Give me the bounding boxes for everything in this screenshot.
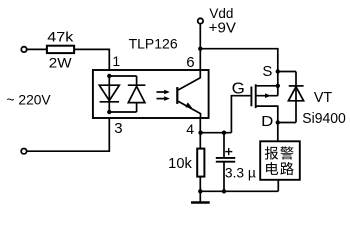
svg-text:G: G xyxy=(232,80,245,97)
wire internal right vertical bottom xyxy=(136,103,138,112)
diode VD triangle xyxy=(288,87,303,101)
node rail-resistor junction xyxy=(198,189,202,193)
wire pin6 above box xyxy=(199,49,201,70)
resistor R2 10k xyxy=(197,149,204,177)
wire internal right vertical top xyxy=(136,76,138,85)
svg-text:Si9400: Si9400 xyxy=(302,111,346,127)
svg-text:6: 6 xyxy=(186,54,194,71)
diode VD body vertical xyxy=(295,72,297,123)
svg-text:47k: 47k xyxy=(47,29,74,45)
phototransistor collector diagonal xyxy=(178,70,200,90)
node Vdd junction xyxy=(198,47,202,51)
node pin1 internal junction xyxy=(107,74,111,78)
wire internal left vertical pin1-pin3 xyxy=(108,76,110,112)
svg-text:3: 3 xyxy=(114,120,122,137)
ground symbol xyxy=(191,191,210,202)
svg-text:S: S xyxy=(262,63,272,80)
terminal Vdd xyxy=(198,18,203,23)
MOSFET drain stub xyxy=(257,106,278,122)
wire pin3 below box xyxy=(27,118,110,151)
alarm circuit box xyxy=(260,141,300,180)
node capacitor branch xyxy=(222,131,226,135)
LED D2 (up-pointing diode) xyxy=(128,85,146,102)
capacitor C1 plus sign xyxy=(225,148,232,155)
node S junction xyxy=(276,69,280,73)
wire node to gate corner xyxy=(200,132,231,134)
wire R2 to ground rail xyxy=(199,177,201,192)
alarm box text char jing (警) xyxy=(280,146,293,159)
MOSFET body stub xyxy=(257,95,278,97)
diode VD cathode bar xyxy=(289,85,304,87)
wire internal bottom horizontal xyxy=(109,111,136,113)
alarm box text char dian (电) xyxy=(266,162,278,175)
LED D1 (down-pointing diode) xyxy=(99,85,119,102)
node gate-RC junction xyxy=(198,131,202,135)
node source stub junction xyxy=(276,84,280,88)
svg-text:+9V: +9V xyxy=(209,20,237,36)
alarm box text char bao (报) xyxy=(265,146,278,159)
svg-text:10k: 10k xyxy=(168,156,192,172)
phototransistor emitter diagonal xyxy=(178,101,200,118)
MOSFET source stub xyxy=(257,85,278,87)
wire alarm box to rail xyxy=(277,180,279,192)
light arrow lower xyxy=(157,96,170,101)
wire pin4 below box xyxy=(199,118,201,149)
capacitor C1 top plate xyxy=(216,157,235,159)
wire terminal to R1 xyxy=(27,48,47,50)
svg-text:~ 220V: ~ 220V xyxy=(7,92,52,107)
svg-text:D: D xyxy=(261,113,273,130)
light arrow upper xyxy=(157,90,170,95)
wire D to diode bottom xyxy=(278,122,296,124)
svg-text:VT: VT xyxy=(314,90,333,106)
wire D down to alarm box xyxy=(277,123,279,142)
node rail-capacitor junction xyxy=(222,189,226,193)
wire R1 to pin1 corner xyxy=(75,49,109,70)
node D junction xyxy=(276,120,280,124)
wire Vdd junction to S rail xyxy=(200,49,277,96)
resistor R1 47k 2W xyxy=(47,46,74,53)
phototransistor Q1 base bar xyxy=(176,87,178,104)
terminal AC input top xyxy=(21,47,26,52)
svg-text:2W: 2W xyxy=(49,54,73,70)
svg-text:4: 4 xyxy=(186,121,194,137)
svg-text:1: 1 xyxy=(112,53,120,69)
wire capacitor branch down xyxy=(223,133,225,157)
MOSFET body arrowhead xyxy=(265,93,271,98)
wire Vdd terminal down xyxy=(199,24,201,49)
alarm box text char lu (路) xyxy=(280,162,293,175)
ground rail xyxy=(200,190,278,192)
MOSFET VT channel bar xyxy=(255,84,257,108)
svg-text:TLP126: TLP126 xyxy=(129,36,178,52)
node pin3 internal junction xyxy=(107,110,111,114)
MOSFET VT gate bar xyxy=(250,87,252,107)
wire gate to RC node xyxy=(231,96,250,133)
svg-text:Vdd: Vdd xyxy=(209,6,233,21)
svg-text:3.3 µ: 3.3 µ xyxy=(225,164,256,180)
wire internal top horizontal xyxy=(109,75,136,77)
wire S to diode top xyxy=(278,71,296,73)
capacitor C1 bottom plate xyxy=(216,161,235,163)
phototransistor emitter arrowhead xyxy=(185,102,192,108)
terminal AC input bottom xyxy=(21,149,26,154)
wire capacitor to rail xyxy=(223,162,225,192)
optocoupler U1 TLP126 box xyxy=(93,70,209,118)
